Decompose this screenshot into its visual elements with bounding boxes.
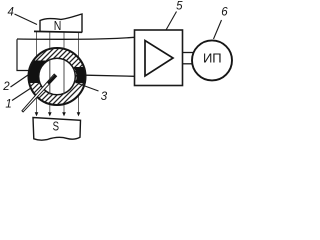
svg-text:6: 6 [221,7,228,19]
svg-text:4: 4 [7,7,13,19]
svg-text:N: N [54,18,62,33]
svg-text:ИП: ИП [203,51,222,66]
svg-text:2: 2 [2,81,10,93]
svg-text:1: 1 [5,98,11,110]
svg-text:5: 5 [176,0,183,12]
svg-text:3: 3 [101,91,108,103]
svg-text:S: S [53,119,60,134]
